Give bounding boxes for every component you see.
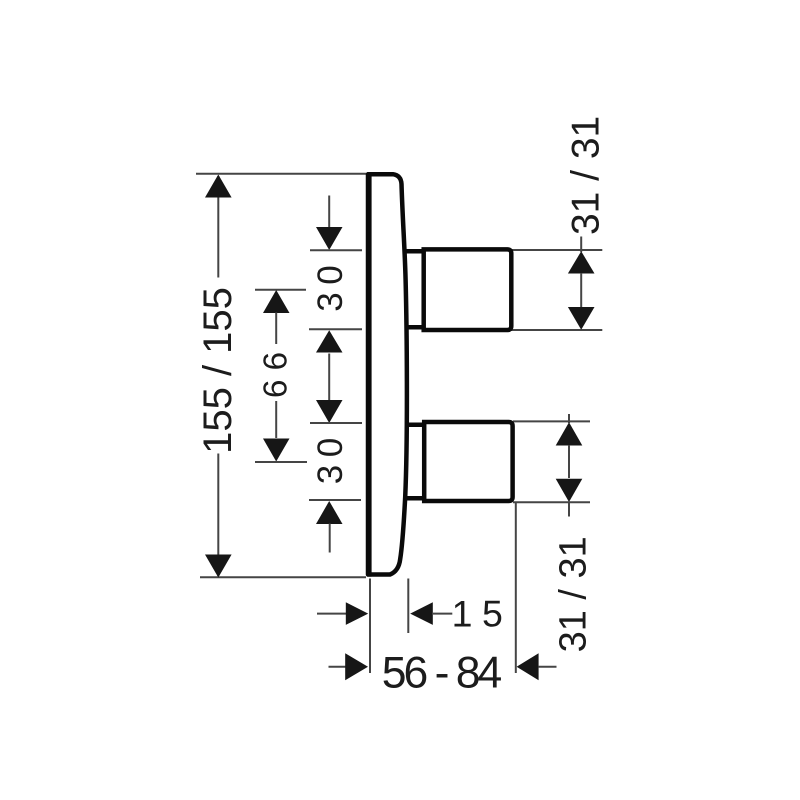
svg-text:66: 66 xyxy=(258,343,295,398)
svg-text:56 - 84: 56 - 84 xyxy=(382,649,502,698)
svg-text:15: 15 xyxy=(452,593,513,635)
svg-text:30: 30 xyxy=(311,430,350,484)
svg-text:30: 30 xyxy=(311,258,350,312)
svg-text:31 / 31: 31 / 31 xyxy=(565,116,608,235)
svg-text:31 / 31: 31 / 31 xyxy=(552,536,594,652)
svg-text:155 / 155: 155 / 155 xyxy=(196,287,240,454)
